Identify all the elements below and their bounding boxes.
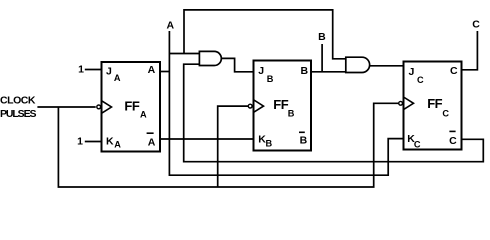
- svg-text:K: K: [106, 135, 114, 147]
- wire: FF_A output A-bar to K_B: [160, 138, 254, 140]
- FF_C label FF_C: [427, 96, 449, 119]
- svg-text:B: B: [266, 138, 273, 148]
- svg-text:B: B: [301, 65, 309, 77]
- svg-text:J: J: [409, 66, 415, 78]
- FF_B clock triangle: [254, 100, 264, 113]
- wire: FF_C output C up to label C: [462, 31, 478, 70]
- wire: top rail net A to AND2 top input: [184, 10, 346, 59]
- FF_C clock triangle: [404, 97, 414, 110]
- FF_A output label A-bar: [147, 133, 156, 148]
- FF_C clock bubble: [399, 101, 403, 105]
- svg-text:A: A: [140, 109, 147, 119]
- svg-text:A: A: [167, 20, 175, 32]
- wire: clock rail (down at x57.3, along bottom, up to FF_C clock): [58, 103, 398, 187]
- svg-text:FF: FF: [124, 98, 139, 113]
- FF_C output label C-bar: [449, 131, 457, 147]
- wire: AND2 output to J_C: [370, 65, 404, 67]
- FF_B label K_B: [258, 133, 272, 148]
- wire: B label vertical to B output wire: [321, 44, 323, 72]
- AND gate G1: [199, 51, 221, 65]
- constant 1 to J_A: [78, 63, 101, 75]
- svg-text:A: A: [114, 73, 121, 83]
- FF_B clock bubble: [248, 104, 252, 108]
- flip-flop FF_A box: [102, 62, 161, 152]
- svg-text:C: C: [442, 109, 449, 119]
- svg-text:B: B: [267, 74, 274, 84]
- FF_C label K_C: [407, 133, 421, 149]
- svg-text:C: C: [450, 65, 458, 77]
- svg-text:PULSES: PULSES: [0, 108, 37, 120]
- svg-text:B: B: [288, 108, 295, 118]
- svg-text:J: J: [106, 65, 112, 77]
- AND gate G2: [346, 57, 370, 72]
- FF_A label K_A: [106, 135, 121, 149]
- svg-text:A: A: [114, 140, 121, 150]
- wire: clock riser to FF_B clock: [218, 106, 249, 187]
- wire: FF_A output A to net A vertical: [160, 71, 169, 73]
- svg-text:C: C: [417, 75, 424, 85]
- svg-text:1: 1: [77, 136, 83, 148]
- svg-text:B: B: [318, 31, 326, 43]
- svg-text:FF: FF: [273, 97, 288, 112]
- wire: AND1 output to J_B: [222, 58, 254, 71]
- wire: FF_B output B to AND2 bottom input: [311, 71, 346, 73]
- svg-text:A: A: [148, 136, 156, 148]
- svg-text:C: C: [472, 18, 480, 30]
- FF_C label J_C: [409, 66, 425, 85]
- FF_B label J_B: [258, 65, 274, 84]
- svg-text:J: J: [258, 65, 264, 77]
- constant 1 to K_A: [77, 136, 101, 148]
- wire: AND1 bottom input from C-bar rail: [184, 64, 484, 162]
- flip-flop FF_B box: [254, 61, 312, 151]
- clock source label CLOCK PULSES: [0, 95, 37, 121]
- FF_B output label B-bar: [299, 132, 308, 146]
- FF_A clock bubble: [97, 105, 101, 109]
- wire: net A vertical from label A down, bottom rail, riser to K_C: [169, 31, 403, 175]
- svg-text:1: 1: [78, 63, 84, 75]
- wire: clock pulses to FF_A clock input: [37, 106, 95, 108]
- svg-text:C: C: [449, 135, 457, 147]
- svg-text:C: C: [414, 139, 421, 149]
- wire: AND1 top input (net A): [169, 53, 199, 55]
- svg-text:A: A: [148, 64, 156, 76]
- svg-text:FF: FF: [427, 96, 442, 111]
- flip-flop FF_C box: [404, 62, 462, 150]
- FF_A label J_A: [106, 65, 121, 83]
- svg-text:CLOCK: CLOCK: [0, 95, 36, 107]
- FF_A clock triangle: [102, 101, 112, 114]
- svg-text:B: B: [300, 135, 308, 147]
- FF_B label FF_B: [273, 97, 295, 118]
- FF_A label FF_A: [124, 98, 147, 119]
